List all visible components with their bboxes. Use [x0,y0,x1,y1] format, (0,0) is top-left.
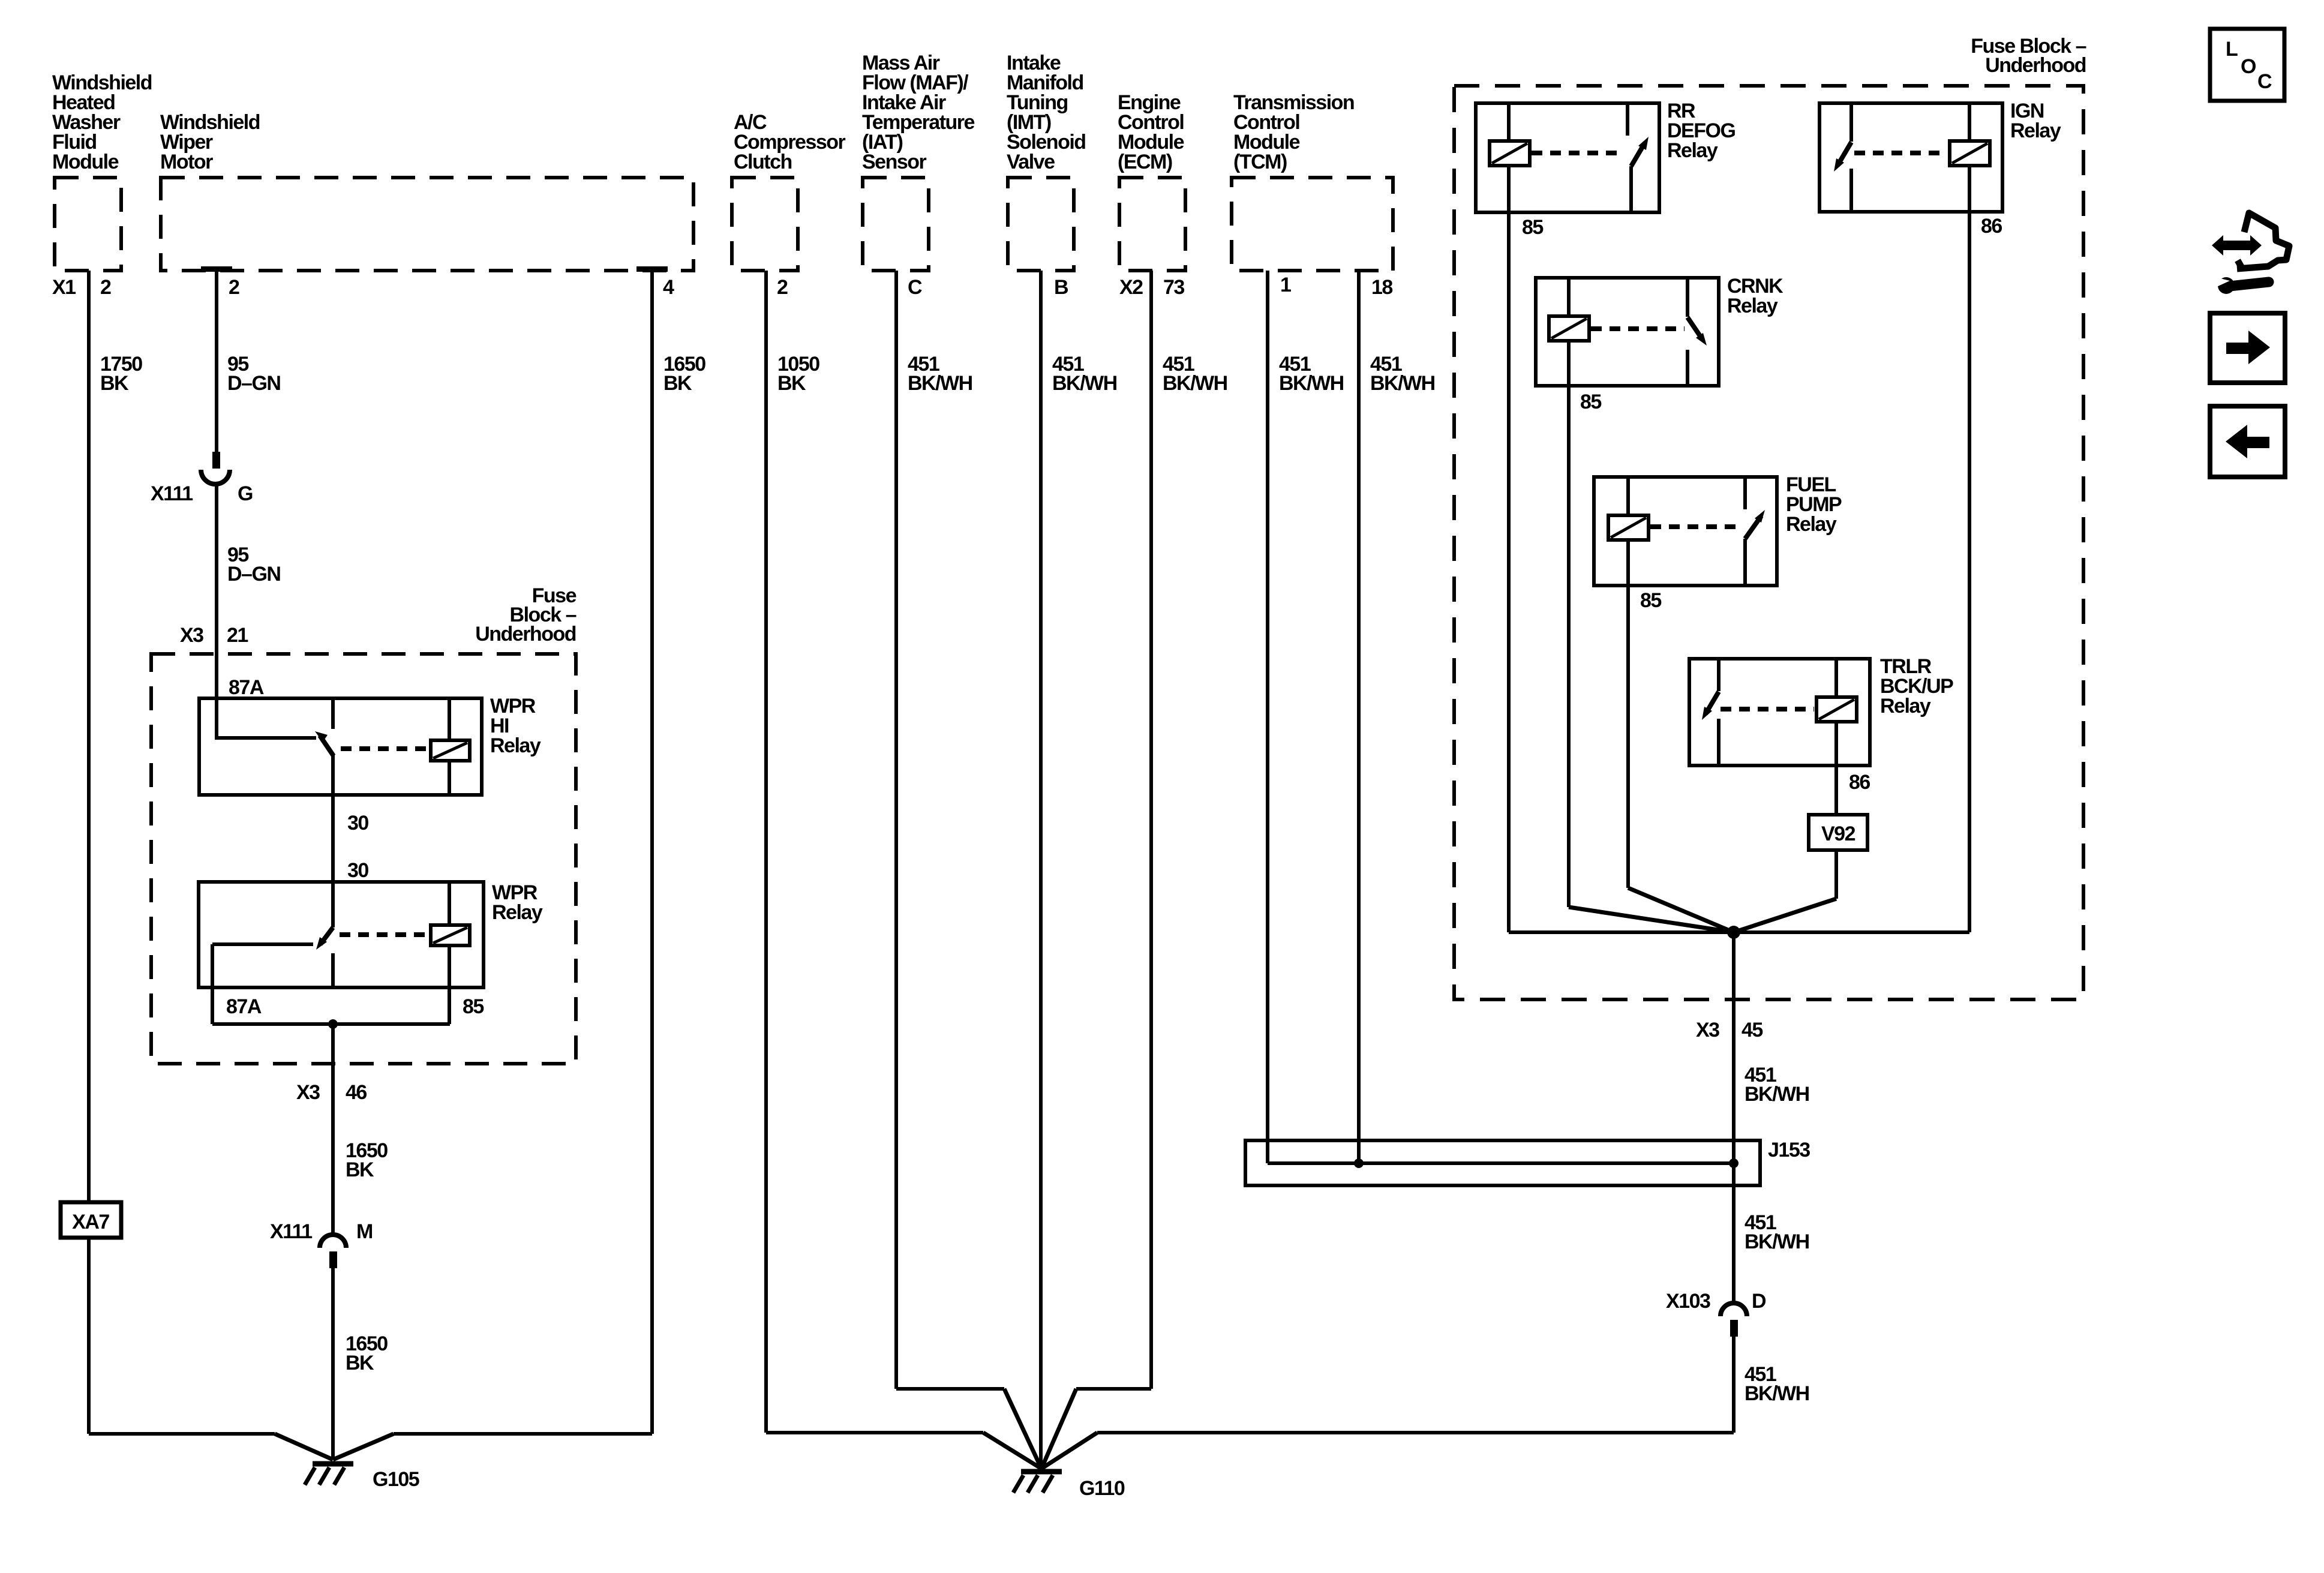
wire: X111 M down to G105 [331,1268,335,1460]
svg-text:V92: V92 [1821,822,1855,845]
pin label C (MAF/IAT sensor) [908,276,922,299]
label 85 (RR DEFOG) [1522,216,1543,239]
wire: TRLR pin 86 down to V92 [1834,766,1838,815]
svg-text:C: C [908,276,922,299]
relay WPR: 87A lead down [211,944,214,1024]
relay CRNK: switch arm [1688,317,1707,346]
fuse block - underhood (left) dashed box [151,654,576,1064]
relay RR DEFOG: switch arm [1631,137,1649,166]
svg-text:XA7: XA7 [72,1211,109,1233]
splice pack J153 box [1245,1140,1760,1185]
label 86 (IGN) [1981,215,2002,238]
svg-text:Module: Module [52,151,119,173]
svg-text:Clutch: Clutch [734,151,792,173]
svg-text:BK: BK [663,372,692,395]
relay RR DEFOG: actuation link [1532,151,1625,155]
relay IGN: actuation link [1854,151,1947,155]
label V92 [1821,822,1855,845]
icon: forward arrow [2226,331,2270,364]
svg-text:Relay: Relay [1667,139,1718,162]
relay WPR HI: actuation link [341,746,428,751]
wire: TCM pin 1 down to J153 [1266,271,1269,1163]
label: Fuse Block - Underhood (right) [1971,35,2086,77]
svg-text:M: M [356,1220,373,1243]
relay TRLR BCK/UP: coil lower lead [1834,722,1838,766]
svg-text:X3: X3 [1696,1019,1719,1041]
component box: A/C Compressor Clutch [732,178,798,271]
icon: LOC box [2210,29,2284,101]
relay FUEL PUMP: pole lead [1743,539,1747,586]
svg-text:X111: X111 [151,482,193,505]
label: Windshield Heated Washer Fluid Module [52,71,152,173]
label X111 M [270,1220,373,1243]
svg-text:G110: G110 [1079,1477,1125,1500]
icon: double arrow (connector view) [2212,235,2262,256]
relay TRLR BCK/UP: pole lead [1717,719,1721,766]
wire label 451 BK/WH (MAF) [908,353,972,395]
svg-text:Relay: Relay [1727,295,1778,317]
label: Mass Air Flow (MAF)/Intake Air Temperature (IAT) Sensor [862,52,975,173]
wire: A/C clutch pin 2 down [764,271,768,1433]
wire: MAF to ground run [896,1387,1004,1391]
label: Engine Control Module (ECM) [1118,91,1184,173]
wire: MAF diagonal to G110 [1004,1389,1041,1469]
relay IGN: pole lead [1849,169,1853,212]
svg-text:B: B [1054,276,1068,299]
pin tick (wiper motor pin 4) [636,266,668,272]
relay CRNK: coil lower lead [1567,341,1571,386]
relay RR DEFOG: coil [1490,141,1530,166]
wire: IMT pin B down to G110 [1039,271,1043,1469]
relay WPR HI: switch arm [315,731,334,756]
relay CRNK: case [1536,278,1719,386]
component box: Windshield Heated Washer Fluid Module [55,178,121,271]
relay RR DEFOG: fixed contact stub [1626,103,1629,136]
relay WPR HI: coil [431,740,470,761]
svg-text:X103: X103 [1666,1290,1710,1313]
relay WPR: coil lower lead to pin 85 [448,945,451,1024]
wire: diagonal to G110 (right) [1041,1433,1097,1469]
wire: splice bus (right fuse block) [1509,930,1969,934]
wire: washer wire to ground run [89,1432,275,1436]
pin label B (IMT solenoid valve) [1054,276,1068,299]
relay FUEL PUMP: switch arm [1745,510,1765,539]
svg-text:Relay: Relay [490,734,541,757]
pin label 4 (wiper motor) [663,276,674,299]
wire: CRNK diagonal to splice [1569,907,1734,932]
wire: IGN pin 86 down to splice [1968,212,1971,932]
wire: X111 G down into fuse block to WPR HI relay [215,483,218,740]
svg-text:BK/WH: BK/WH [1744,1230,1809,1253]
connector X111 pin G (female arc) [201,470,230,484]
relay TRLR BCK/UP: coil [1816,697,1857,722]
relay TRLR BCK/UP: coil upper lead [1834,659,1838,697]
wire: FUEL PUMP diagonal to splice [1628,888,1734,932]
wire label 451 BK/WH (TCM 1) [1279,353,1344,395]
label X111 G [151,482,253,505]
wire: A/C diagonal to G110 [983,1433,1041,1469]
wire: A/C clutch to ground run [766,1431,983,1434]
connector X111 pin G (male terminal) [212,452,220,469]
svg-text:D: D [1752,1290,1766,1313]
label J153 [1768,1139,1810,1161]
relay CRNK: coil [1549,316,1589,341]
wire: wiper pin4 diagonal to G105 [333,1434,394,1460]
svg-text:46: 46 [346,1081,367,1104]
relay WPR: case [199,882,484,987]
label X3 / 21 (fuse block connector) [180,624,248,647]
svg-text:21: 21 [227,624,248,647]
connector XA7 box [61,1202,121,1238]
wire label 451 BK/WH (TCM 18) [1370,353,1435,395]
label 85 (below WPR relay) [463,995,484,1018]
label 87A (WPR HI relay input) [229,676,264,699]
svg-text:Relay: Relay [2010,119,2061,142]
wire: ECM to ground run [1076,1387,1151,1391]
relay WPR HI: 87A contact lead [217,736,316,740]
relay WPR: actuation link [340,932,428,937]
label: Windshield Wiper Motor [160,111,260,173]
svg-text:G: G [238,482,253,505]
pin label 18 (TCM) [1371,276,1392,299]
wire: RR DEFOG pin 85 down to splice [1507,212,1511,932]
pin label 2 (A/C compressor clutch) [777,276,788,299]
component box: MAF/IAT Sensor [863,178,929,271]
svg-text:BK: BK [777,372,806,395]
svg-text:18: 18 [1371,276,1392,299]
svg-text:BK/WH: BK/WH [1279,372,1344,395]
junction (TCM 18 at J153) [1354,1158,1364,1168]
svg-text:BK/WH: BK/WH [1163,372,1227,395]
wire: V92 diagonal to splice [1734,899,1836,932]
svg-text:X3: X3 [296,1081,320,1104]
svg-text:BK/WH: BK/WH [1744,1083,1809,1106]
svg-text:X2: X2 [1119,276,1143,299]
wire label 1750 BK [100,353,142,395]
relay WPR HI: fixed contact stub 87 [331,698,335,729]
relay IGN: coil lower lead [1968,166,1971,212]
svg-text:73: 73 [1163,276,1184,299]
wire: V92 down [1834,850,1838,899]
svg-text:BK: BK [346,1158,374,1181]
wire label 451 BK/WH (X3-45) [1744,1064,1809,1106]
component box: Engine Control Module (ECM) [1119,178,1185,271]
junction (X3-45 wire at J153) [1729,1158,1739,1168]
wire label 451 BK/WH (below J153) [1744,1211,1809,1253]
relay IGN: coil [1950,141,1990,166]
label: CRNK Relay [1727,275,1783,317]
relay FUEL PUMP: coil [1608,515,1649,540]
svg-text:2: 2 [777,276,788,299]
icon: back arrow [2226,425,2269,458]
icon: wrench [2215,277,2269,294]
svg-text:O: O [2241,55,2256,78]
pin label X2 / 73 (ECM) [1119,276,1184,299]
wire label 1650 BK (wiper pin 4) [663,353,705,395]
relay WPR: 87A contact lead [212,942,313,946]
label: TRLR BCK/UP Relay [1880,655,1953,718]
relay CRNK: coil upper lead [1567,278,1571,316]
svg-text:D–GN: D–GN [227,372,280,395]
wire: CRNK pin 85 down [1567,386,1571,907]
relay TRLR BCK/UP: fixed contact stub [1717,659,1721,691]
wire label 1650 BK (above X111 M) [346,1139,388,1181]
svg-text:X3: X3 [180,624,203,647]
fuse block - underhood (right) dashed box [1454,86,2083,999]
relay WPR: fixed contact stub [331,953,335,987]
wire label 95 D-GN (below X111 G) [227,544,280,586]
icon: forward arrow box [2210,313,2285,383]
svg-text:(TCM): (TCM) [1233,151,1287,173]
icon: back arrow box [2210,406,2285,477]
label 30 (above WPR relay) [347,859,368,882]
relay IGN: fixed contact stub [1849,103,1853,142]
relay WPR: coil upper lead [448,882,451,925]
relay CRNK: fixed contact stub [1686,278,1689,317]
wire: J153 splice bus [1268,1161,1734,1165]
label: IGN Relay [2010,100,2061,142]
svg-text:Motor: Motor [160,151,213,173]
svg-text:BK/WH: BK/WH [908,372,972,395]
wire: ECM pin 73 down [1149,271,1153,1389]
svg-text:Underhood: Underhood [475,623,576,646]
ground G110 symbol [1013,1472,1062,1493]
wire: WPR relay output bus [212,1022,450,1026]
svg-text:D–GN: D–GN [227,563,280,586]
wire: wiper motor pin 4 to G105 [650,271,654,1434]
label: WPR Relay [492,881,543,924]
wire: wiper motor pin 2 down to connector X111 G [215,271,218,453]
svg-text:BK/WH: BK/WH [1052,372,1117,395]
relay TRLR BCK/UP: switch arm [1702,692,1719,720]
component V92 box [1809,815,1867,850]
relay RR DEFOG: case [1476,103,1659,212]
relay FUEL PUMP: fixed contact stub [1743,477,1747,509]
label X3 / 46 [296,1081,367,1104]
wire: ECM diagonal to G110 [1041,1389,1076,1469]
wire: FUEL PUMP pin 85 down [1626,586,1630,888]
label X3 / 45 (right fuse block) [1696,1019,1762,1041]
svg-text:87A: 87A [226,995,262,1018]
svg-text:(ECM): (ECM) [1118,151,1172,173]
relay RR DEFOG: coil upper lead [1507,103,1511,141]
relay CRNK: actuation link [1591,326,1685,331]
label: Fuse Block - Underhood (left) [475,584,576,646]
svg-text:X111: X111 [270,1220,312,1243]
label 85 (FUEL PUMP) [1640,589,1661,612]
wire: X103 D down [1732,1337,1736,1433]
label: RR DEFOG Relay [1667,100,1735,162]
ground G105 symbol [305,1464,353,1485]
svg-text:X1: X1 [52,276,76,299]
svg-text:30: 30 [347,812,368,834]
wire: fuse block X3-46 down to X111 M [331,1024,335,1235]
wire: X103 wire to ground run [1097,1431,1734,1434]
relay WPR: switch arm [316,927,333,950]
svg-text:Sensor: Sensor [862,151,927,173]
label G105 [373,1468,419,1491]
connector X103 pin D (male terminal) [1730,1320,1738,1337]
svg-text:1: 1 [1280,274,1291,296]
relay WPR: pole lead from pin 30 [331,882,335,927]
svg-text:Relay: Relay [1786,513,1837,536]
svg-text:BK/WH: BK/WH [1370,372,1435,395]
label XA7 [72,1211,109,1233]
relay CRNK: pole lead [1686,350,1689,386]
svg-text:Relay: Relay [492,901,543,924]
svg-text:Underhood: Underhood [1985,54,2086,77]
relay WPR HI: coil upper lead [448,698,451,740]
label 85 (CRNK) [1580,391,1601,413]
svg-text:86: 86 [1981,215,2002,238]
pin tick (wiper motor pin 2) [201,266,232,272]
svg-text:G105: G105 [373,1468,419,1491]
svg-text:2: 2 [100,276,111,299]
pin label 2 (wiper motor) [229,276,239,299]
junction (WPR relay outputs) [328,1019,338,1029]
svg-text:BK: BK [346,1352,374,1374]
label: FUEL PUMP Relay [1786,473,1842,536]
svg-text:C: C [2257,70,2272,93]
label 86 (TRLR BCK/UP) [1849,771,1870,794]
relay WPR HI: pole to pin 30 [331,755,335,882]
svg-text:4: 4 [663,276,674,299]
label: Transmission Control Module (TCM) [1233,91,1354,173]
label 87A (below WPR relay) [226,995,262,1018]
svg-text:BK: BK [100,372,129,395]
svg-text:85: 85 [1580,391,1601,413]
wire label 451 BK/WH (ECM) [1163,353,1227,395]
wire: MAF pin C down [894,271,898,1389]
wire: washer wire diagonal to G105 [275,1434,333,1460]
relay IGN: case [1819,103,2002,212]
wire: washer fluid module pin 2 to G105 [87,271,91,1434]
relay WPR HI: case [199,698,482,795]
label: WPR HI Relay [490,695,541,757]
component box: IMT Solenoid Valve [1008,178,1074,271]
wire label 451 BK/WH (below X103) [1744,1363,1809,1405]
pin label 1 (TCM) [1280,274,1291,296]
relay WPR HI: coil lower lead [448,761,451,795]
pin label X1 / 2 (washer fluid module) [52,276,111,299]
connector X111 pin M (male terminal) [329,1251,337,1268]
label: A/C Compressor Clutch [734,111,846,173]
svg-text:45: 45 [1742,1019,1762,1041]
svg-text:87A: 87A [229,676,264,699]
relay IGN: switch arm [1834,142,1851,172]
svg-text:BK/WH: BK/WH [1744,1382,1809,1405]
relay FUEL PUMP: coil lower lead [1626,540,1630,586]
junction (right fuse block splice) [1727,926,1740,939]
relay WPR: coil [431,925,470,945]
component box: Windshield Wiper Motor [161,178,693,271]
relay TRLR BCK/UP: case [1689,659,1870,766]
relay RR DEFOG: coil lower lead [1507,166,1511,212]
label: Intake Manifold Tuning (IMT) Solenoid Valve [1007,52,1086,173]
icon: component outline [2237,213,2289,269]
wire: TCM pin 18 down to J153 [1357,271,1361,1163]
relay IGN: coil upper lead [1968,103,1971,141]
svg-text:85: 85 [1522,216,1543,239]
wire: wiper pin4 wire to ground run [394,1432,652,1436]
connector X111 pin M (female arc) [320,1235,346,1248]
label G110 [1079,1477,1125,1500]
svg-text:J153: J153 [1768,1139,1810,1161]
svg-text:L: L [2226,38,2238,61]
relay FUEL PUMP: actuation link [1650,524,1743,529]
component box: Transmission Control Module (TCM) [1232,178,1393,271]
label 30 (below WPR HI relay) [347,812,368,834]
wire: X3-45 down through J153 to X103 [1732,932,1736,1303]
relay RR DEFOG: pole lead [1629,166,1633,212]
wire label 95 D-GN [227,353,280,395]
icon: LOC letters [2226,38,2272,93]
wire label 1050 BK [777,353,819,395]
relay FUEL PUMP: coil upper lead [1626,477,1630,515]
svg-text:Relay: Relay [1880,695,1931,718]
svg-text:2: 2 [229,276,239,299]
svg-text:86: 86 [1849,771,1870,794]
label X103 D [1666,1290,1766,1313]
relay FUEL PUMP: case [1594,477,1777,586]
relay TRLR BCK/UP: actuation link [1721,707,1814,712]
wire label 1650 BK (below X111 M) [346,1332,388,1374]
wire label 451 BK/WH (IMT) [1052,353,1117,395]
svg-text:30: 30 [347,859,368,882]
svg-text:85: 85 [463,995,484,1018]
connector X103 pin D (female arc) [1721,1303,1747,1316]
svg-text:85: 85 [1640,589,1661,612]
svg-text:Valve: Valve [1007,151,1055,173]
